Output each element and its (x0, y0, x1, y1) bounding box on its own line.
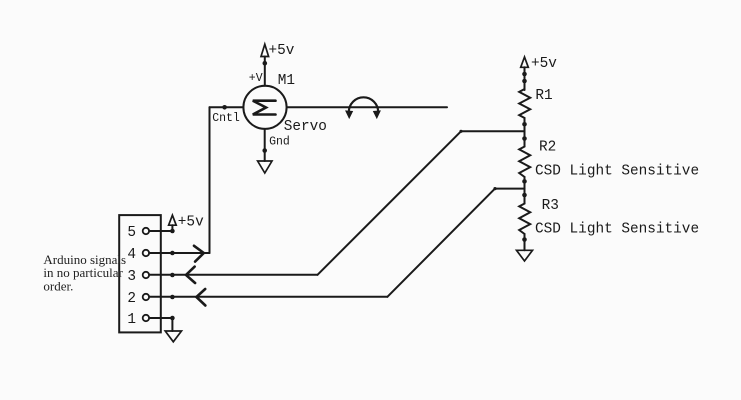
junction dot (522, 72, 527, 77)
wire +5v stub (connector) (171, 225, 173, 231)
pin 3 circle (143, 272, 149, 278)
rotation arrowhead right (374, 111, 381, 118)
ground symbol (connector) (165, 331, 181, 342)
arrow pin4 (points right) (194, 246, 204, 262)
wire servo output (right) (287, 106, 447, 108)
svg-text:Cntl: Cntl (212, 112, 240, 125)
junction dot pin5 (170, 229, 175, 234)
svg-text:+5v: +5v (531, 56, 557, 72)
ground symbol (right chain) (517, 250, 533, 261)
svg-text:R2: R2 (539, 140, 556, 156)
pin 1 circle (143, 315, 149, 321)
connector box (119, 215, 161, 332)
svg-text:CSD Light Sensitive: CSD Light Sensitive (535, 163, 699, 179)
svg-text:5: 5 (127, 225, 136, 241)
junction dot on Cntl wire (222, 105, 227, 110)
wire pin 4 (149, 252, 209, 254)
wire pin 5 (149, 230, 172, 232)
servo M1 body (243, 86, 286, 129)
pin 2 circle (143, 294, 149, 300)
wire servo +V stub (264, 57, 266, 86)
power +5v symbol (connector) (169, 215, 177, 225)
arrow pin2 (points left) (196, 289, 205, 306)
arrow pin3 (points left) (186, 267, 195, 283)
junction dot pin3 (170, 273, 175, 278)
wire servo Gnd stub (264, 129, 266, 161)
svg-text:CSD Light Sensitive: CSD Light Sensitive (535, 222, 699, 238)
svg-text:+5v: +5v (269, 43, 295, 59)
junction dot on Gnd stub (262, 148, 267, 153)
svg-text:3: 3 (127, 269, 136, 285)
resistor R2 zigzag (519, 147, 530, 178)
resistor R3 zigzag (519, 204, 530, 235)
svg-text:Servo: Servo (284, 119, 327, 135)
pin 4 circle (143, 250, 149, 256)
wire vertical from Cntl down to pin 4 (209, 107, 211, 253)
wire pin2 horizontal run (149, 296, 387, 298)
wire pin 1 (149, 317, 172, 319)
ground symbol (servo) (258, 161, 272, 173)
wire node R2-R3 to bend (495, 188, 525, 190)
junction dot (522, 122, 527, 127)
wire +5v to R1 (524, 67, 526, 90)
wire pin3 horizontal run (149, 274, 317, 276)
bend dot (493, 187, 496, 190)
wire diagonal node R1-R2 down to pin3 run (318, 131, 462, 274)
svg-text:2: 2 (127, 291, 136, 307)
pin 5 circle (143, 228, 149, 234)
wire servo Cntl pin (210, 106, 244, 108)
resistor R1 zigzag (519, 89, 530, 118)
junction dot pin2 (170, 295, 175, 300)
svg-text:R1: R1 (535, 88, 552, 104)
junction dot (522, 179, 527, 184)
servo sigma symbol (253, 101, 276, 115)
svg-text:order.: order. (43, 279, 73, 294)
svg-text:R3: R3 (542, 198, 559, 214)
wire R2 to R3 (524, 177, 526, 204)
wire R1 to R2 (524, 118, 526, 147)
power +5v symbol (right chain) (521, 57, 529, 67)
svg-text:1: 1 (127, 312, 136, 328)
svg-text:4: 4 (127, 247, 136, 263)
wire node R1-R2 to bend (461, 130, 525, 132)
junction dot (522, 237, 527, 242)
svg-text:+V: +V (249, 72, 263, 85)
svg-text:M1: M1 (278, 73, 295, 89)
junction dot (522, 79, 527, 84)
svg-text:Gnd: Gnd (269, 136, 290, 149)
rotation arc (349, 97, 378, 112)
wire diagonal node R2-R3 down to pin2 run (387, 189, 495, 297)
rotation arrowhead left (346, 111, 353, 118)
junction dot pin4 (170, 251, 175, 256)
junction dot (522, 193, 527, 198)
bend dot (459, 130, 462, 133)
wire pin1 to ground (171, 318, 173, 331)
wire R3 to ground (524, 234, 526, 250)
junction dot on servo +V wire (263, 61, 268, 66)
junction dot pin1 (170, 316, 175, 321)
junction dot (522, 136, 527, 141)
power +5v symbol (servo) (261, 44, 269, 56)
svg-text:+5v: +5v (178, 215, 204, 231)
